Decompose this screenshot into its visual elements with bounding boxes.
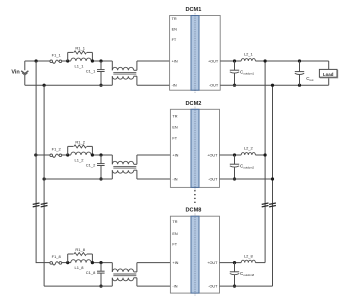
svg-text:-OUT: -OUT (208, 177, 218, 181)
svg-text:L2_8: L2_8 (244, 253, 254, 258)
svg-text:+IN: +IN (172, 153, 178, 157)
svg-text:L2_1: L2_1 (244, 52, 254, 57)
svg-text:EN: EN (172, 27, 178, 31)
svg-text:DCM2: DCM2 (186, 101, 202, 107)
svg-text:EN: EN (172, 125, 178, 129)
svg-text:+IN: +IN (172, 261, 178, 265)
svg-text:DCM8: DCM8 (186, 208, 202, 214)
svg-text:+IN: +IN (172, 59, 178, 63)
svg-text:FT: FT (172, 137, 177, 141)
svg-text:F1_2: F1_2 (52, 147, 62, 152)
svg-text:DCM1: DCM1 (185, 7, 201, 13)
svg-text:L1_2: L1_2 (75, 157, 85, 162)
svg-text:Load: Load (323, 72, 334, 77)
svg-text:L1_8: L1_8 (75, 265, 85, 270)
svg-text:F1_8: F1_8 (52, 254, 62, 259)
svg-text:TR: TR (172, 114, 177, 118)
svg-text:-OUT: -OUT (208, 285, 218, 289)
svg-text:TR: TR (172, 220, 177, 224)
svg-text:F1_1: F1_1 (52, 53, 62, 58)
svg-text:+OUT: +OUT (207, 261, 218, 265)
svg-text:+OUT: +OUT (208, 59, 219, 63)
svg-text:Vin: Vin (11, 69, 20, 75)
svg-text:TR: TR (172, 17, 177, 21)
svg-text:R1_2: R1_2 (75, 139, 85, 144)
svg-text:FT: FT (172, 242, 177, 246)
svg-text:R1_8: R1_8 (75, 247, 85, 252)
svg-text:C1_1: C1_1 (86, 69, 96, 74)
svg-text:-IN: -IN (172, 177, 177, 181)
svg-text:EN: EN (172, 232, 178, 236)
svg-text:-IN: -IN (172, 84, 177, 88)
svg-text:C1_2: C1_2 (86, 163, 96, 168)
svg-text:L1_1: L1_1 (75, 63, 85, 68)
svg-text:R1_1: R1_1 (75, 45, 85, 50)
svg-text:C1_8: C1_8 (86, 270, 96, 275)
svg-text:-OUT: -OUT (209, 84, 219, 88)
svg-text:+OUT: +OUT (207, 153, 218, 157)
svg-text:-IN: -IN (172, 285, 177, 289)
svg-text:FT: FT (172, 38, 177, 42)
svg-text:L2_2: L2_2 (244, 146, 254, 151)
